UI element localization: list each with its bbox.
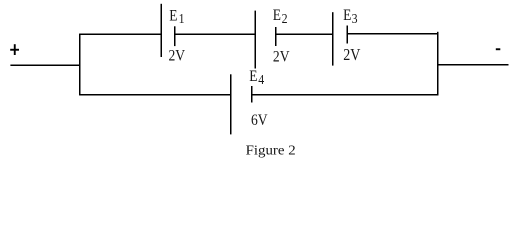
battery E4 long plate	[230, 74, 232, 134]
svg-text:2V: 2V	[343, 46, 360, 64]
battery E3 short plate	[346, 26, 348, 44]
battery E2 short plate	[275, 27, 277, 46]
right bus vertical wire	[437, 32, 439, 96]
svg-text:2V: 2V	[273, 49, 290, 66]
wire segment: E1 to E2	[175, 33, 256, 35]
wire segment: E2 to E3	[276, 33, 333, 35]
bottom wire segment: left bus to E4	[79, 94, 230, 96]
battery E3 long plate	[332, 12, 334, 65]
label E3	[343, 7, 357, 26]
svg-text:1: 1	[179, 10, 185, 26]
svg-text:2V: 2V	[169, 48, 186, 65]
svg-text:E: E	[169, 8, 177, 25]
battery E2 long plate	[254, 11, 256, 69]
label E4	[249, 68, 265, 87]
svg-text:E: E	[249, 68, 257, 85]
bottom wire segment: E4 to right bus	[252, 94, 439, 96]
svg-text:4: 4	[258, 71, 264, 87]
label E2	[273, 7, 288, 26]
top wire segment: left bus to E1	[79, 33, 161, 35]
svg-text:6V: 6V	[251, 112, 268, 129]
svg-text:2: 2	[282, 10, 288, 26]
battery E1 long plate	[160, 4, 162, 57]
svg-text:3: 3	[352, 10, 358, 26]
label E1	[169, 8, 184, 26]
plus terminal sign	[10, 44, 19, 55]
left bus vertical wire	[79, 34, 81, 96]
battery E1 short plate	[174, 26, 176, 46]
left lead wire from + terminal	[10, 64, 80, 66]
right lead wire to - terminal	[438, 64, 509, 66]
svg-text:E: E	[343, 7, 351, 24]
minus terminal sign	[496, 48, 501, 50]
svg-text:Figure 2: Figure 2	[246, 143, 296, 158]
svg-text:E: E	[273, 7, 281, 24]
wire segment: E3 to right bus	[347, 33, 438, 35]
battery E4 short plate	[251, 86, 253, 103]
